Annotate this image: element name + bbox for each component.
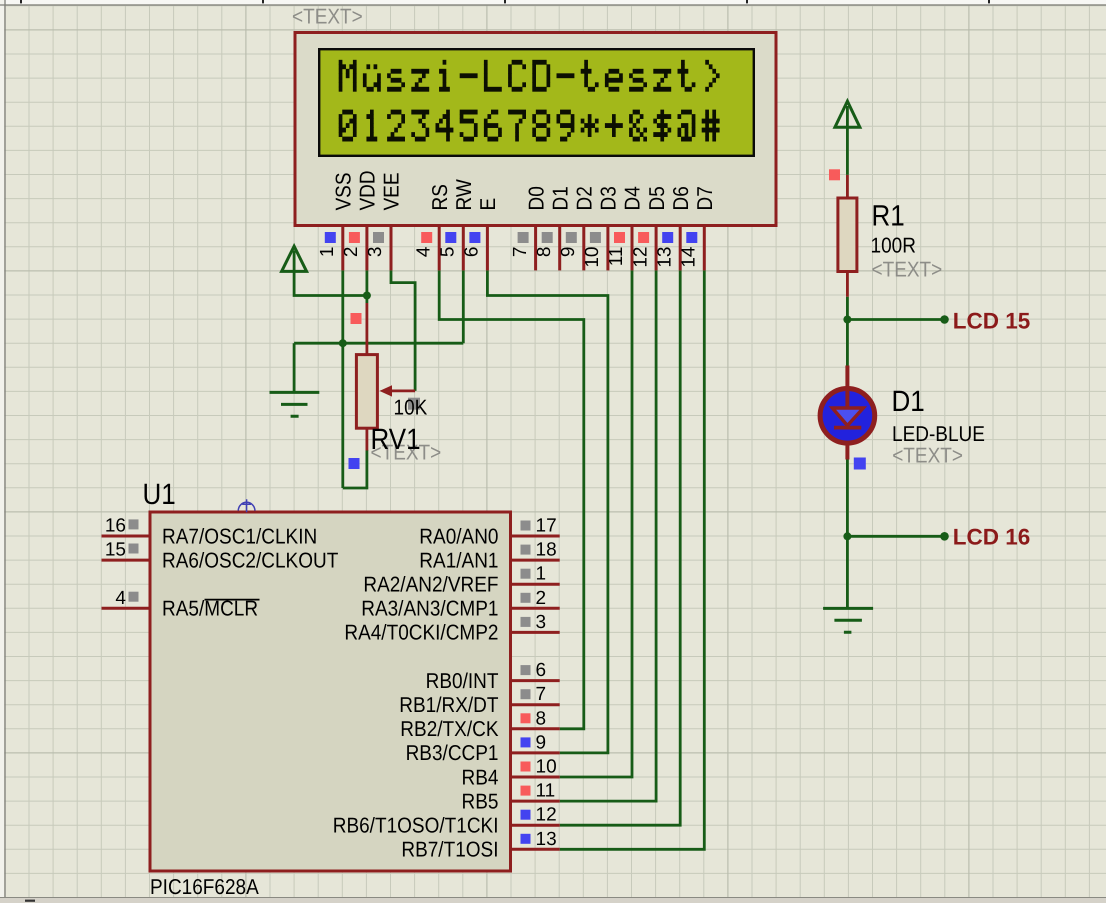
node LCD 16 terminal — [940, 532, 949, 541]
U1 right pin 18 (RA1/AN1) — [511, 540, 560, 561]
LCD pin 12 (D5) stub — [655, 227, 658, 271]
gray state square on VEE wire — [408, 398, 420, 410]
svg-text:LCD 16: LCD 16 — [953, 525, 1031, 550]
LCD pin 9 (D2) stub — [582, 227, 585, 271]
svg-text:10: 10 — [582, 247, 603, 268]
wire: D7 net LCD pin14 to PIC RB7 — [560, 270, 705, 849]
svg-text:RA4/T0CKI/CMP2: RA4/T0CKI/CMP2 — [344, 622, 498, 646]
LCD pin 9 state square — [566, 232, 577, 243]
wire: LCD16 junction down to ground — [846, 536, 849, 608]
wire: D5 net LCD pin12 to PIC RB5 — [560, 270, 656, 801]
LCD pin 4 state square — [421, 232, 432, 243]
svg-text:RB0/INT: RB0/INT — [426, 670, 499, 694]
potentiometer RV1 bottom pin stub — [365, 428, 368, 451]
svg-text:RB6/T1OSO/T1CKI: RB6/T1OSO/T1CKI — [333, 814, 499, 838]
blue state square on D1 bottom wire — [854, 458, 866, 470]
svg-text:RA6/OSC2/CLKOUT: RA6/OSC2/CLKOUT — [162, 549, 339, 573]
LCD pin 11 state square — [614, 232, 625, 243]
U1 right pin 8 (RB2/TX/CK) — [511, 708, 560, 729]
svg-text:<TEXT>: <TEXT> — [892, 444, 963, 468]
LCD pin 10 (D3) stub — [606, 227, 609, 271]
svg-text:12: 12 — [630, 247, 651, 268]
svg-text:18: 18 — [536, 540, 557, 561]
svg-text:VEE: VEE — [381, 172, 405, 210]
power symbol (left, +V arrow) — [282, 246, 307, 271]
LCD pin 11 (D4) stub — [631, 227, 634, 271]
wire: ground riser vertical — [293, 343, 296, 392]
LCD pin 3 state square — [373, 232, 384, 243]
LCD screen — [319, 49, 754, 156]
svg-text:7: 7 — [536, 684, 547, 705]
wire: RV1 bottom to ground rail loop — [343, 450, 367, 488]
U1 right pin 9 (RB3/CCP1) — [511, 732, 560, 753]
svg-text:8: 8 — [536, 708, 547, 729]
junction: D1/LCD16 node — [843, 532, 851, 540]
svg-text:13: 13 — [654, 247, 675, 268]
svg-text:16: 16 — [105, 516, 126, 537]
svg-text:RA3/AN3/CMP1: RA3/AN3/CMP1 — [361, 598, 498, 622]
svg-text:2: 2 — [536, 588, 547, 609]
svg-text:10: 10 — [536, 757, 557, 778]
svg-text:10K: 10K — [394, 396, 428, 420]
svg-text:8: 8 — [534, 247, 555, 258]
red state square on +V/R1 wire — [829, 169, 840, 180]
component origin marker — [238, 499, 255, 512]
LED D1 body circle — [820, 389, 875, 444]
potentiometer RV1 top pin stub — [365, 303, 368, 355]
LCD screen text line 2: 0123456789*+&$@# — [339, 110, 720, 142]
LCD pin 2 (VDD) stub — [365, 227, 368, 271]
LCD pin 2 state square — [349, 232, 360, 243]
resistor R1 body — [838, 198, 857, 272]
svg-text:D1: D1 — [549, 186, 573, 210]
microcontroller U1 body — [150, 512, 511, 871]
U1 pin name RA5/MCLR with overline — [162, 598, 260, 622]
bottom window strip — [0, 898, 1106, 903]
svg-text:RS: RS — [429, 184, 453, 210]
LCD pin 14 state square — [686, 232, 697, 243]
LCD display module (LM016L) body — [295, 33, 776, 226]
svg-text:LCD 15: LCD 15 — [953, 309, 1031, 334]
svg-text:<TEXT>: <TEXT> — [292, 5, 363, 29]
svg-text:6: 6 — [536, 660, 547, 681]
svg-text:U1: U1 — [143, 477, 176, 511]
svg-text:14: 14 — [679, 246, 700, 268]
wire: D1 bottom to LCD16 junction — [846, 460, 849, 537]
LCD pin 8 state square — [542, 232, 553, 243]
LCD pin 7 state square — [518, 232, 529, 243]
svg-text:RA2/AN2/VREF: RA2/AN2/VREF — [363, 573, 498, 597]
power symbol (right, +V arrow above R1) — [835, 101, 860, 127]
svg-text:RB3/CCP1: RB3/CCP1 — [406, 742, 499, 766]
wire: RS net LCD pin4 to PIC RB2 — [439, 270, 584, 728]
svg-text:RB7/T1OSI: RB7/T1OSI — [401, 839, 498, 863]
wire: LCD 15 branch — [847, 318, 944, 321]
svg-text:RA5/MCLR: RA5/MCLR — [162, 598, 258, 622]
wire: LCD pin3 VEE elbow to RV1 wiper — [391, 270, 415, 391]
junction: VDD/RV1 node — [363, 292, 371, 300]
LCD pin 8 (D1) stub — [558, 227, 561, 271]
junction: VSS/ground node — [339, 339, 347, 347]
svg-text:RW: RW — [453, 179, 477, 210]
svg-text:9: 9 — [558, 247, 579, 258]
svg-text:4: 4 — [413, 246, 434, 257]
LCD pin 13 (D6) stub — [679, 227, 682, 271]
wire: ground rail horizontal (gnd riser to LCD pin5) — [294, 342, 463, 345]
U1 right pin 3 (RA4/T0CKI/CMP2) — [511, 612, 560, 633]
LCD pin 6 state square — [469, 232, 480, 243]
resistor R1 top pin stub — [846, 175, 849, 199]
svg-text:11: 11 — [606, 247, 627, 267]
svg-text:LED-BLUE: LED-BLUE — [892, 423, 985, 447]
svg-text:1: 1 — [317, 247, 338, 258]
svg-text:D4: D4 — [622, 186, 646, 211]
potentiometer RV1 wiper arrow — [391, 389, 415, 392]
wire: LCD pin2 VDD down to junction — [365, 270, 368, 303]
svg-text:100R: 100R — [871, 234, 916, 258]
svg-text:9: 9 — [536, 732, 547, 753]
svg-text:3: 3 — [536, 612, 547, 633]
svg-text:12: 12 — [536, 805, 557, 826]
svg-text:RB1/RX/DT: RB1/RX/DT — [399, 694, 499, 718]
svg-text:RB4: RB4 — [462, 766, 499, 790]
U1 right pin 7 (RB1/RX/DT) — [511, 684, 560, 705]
wire: D4 net LCD pin11 to PIC RB4 — [560, 270, 632, 777]
wire: R1 bottom to LCD15 junction — [846, 297, 849, 320]
wire: power arrow to R1 top — [846, 106, 849, 175]
U1 right pin 17 (RA0/AN0) — [511, 516, 560, 537]
svg-text:13: 13 — [536, 829, 557, 850]
wire: LCD pin5 RW down to ground rail — [462, 270, 465, 343]
svg-text:RB2/TX/CK: RB2/TX/CK — [400, 718, 499, 742]
LCD pin 5 state square — [445, 232, 456, 243]
U1 right pin 1 (RA2/AN2/VREF) — [511, 564, 560, 585]
svg-text:D7: D7 — [694, 186, 718, 210]
junction: R1/D1/LCD15 node — [843, 316, 851, 324]
LCD pin 14 (D7) stub — [703, 227, 706, 271]
LCD pin 10 state square — [590, 232, 601, 243]
blue state square on RV1 bottom wire — [349, 458, 360, 469]
svg-text:17: 17 — [536, 516, 557, 537]
LED D1 top pin stub — [845, 366, 849, 391]
wire: LCD 16 branch — [847, 535, 944, 538]
svg-text:D5: D5 — [646, 186, 670, 210]
ground (right, below D1) — [823, 608, 873, 632]
svg-text:D0: D0 — [525, 186, 549, 210]
U1 right pin 10 (RB4) — [511, 757, 560, 778]
wire: LCD pin1 VSS vertical down to ground rail — [341, 270, 344, 488]
wire: junction down to D1 top — [846, 320, 849, 366]
LCD pin 3 (VEE) stub — [390, 227, 393, 271]
svg-text:11: 11 — [536, 781, 556, 802]
svg-text:3: 3 — [365, 247, 386, 258]
svg-text:RA0/AN0: RA0/AN0 — [419, 525, 498, 549]
LCD pin 12 state square — [638, 232, 649, 243]
U1 right pin 13 (RB7/T1OSI) — [511, 829, 560, 850]
svg-text:D6: D6 — [670, 186, 694, 210]
LCD pin 4 (RS) stub — [438, 227, 441, 271]
svg-text:D1: D1 — [892, 384, 925, 418]
LCD pin 1 (VSS) stub — [341, 227, 344, 271]
svg-text:2: 2 — [341, 247, 362, 258]
U1 right pin 12 (RB6/T1OSO/T1CKI) — [511, 805, 560, 826]
LED D1 diode symbol — [845, 388, 849, 428]
LCD screen text line 1: Muszi-LCD-teszt> — [339, 60, 720, 92]
resistor R1 bottom pin stub — [846, 272, 849, 297]
U1 right pin 11 (RB5) — [511, 781, 560, 802]
wire: power arrow to VDD junction — [294, 251, 367, 296]
svg-text:E: E — [477, 198, 501, 211]
svg-text:PIC16F628A: PIC16F628A — [150, 876, 259, 900]
svg-text:6: 6 — [462, 247, 483, 258]
red state square on VDD wire — [351, 313, 362, 324]
LCD pin 13 state square — [662, 232, 673, 243]
LCD pin 5 (RW) stub — [462, 227, 465, 271]
U1 left pin 16 (RA7/OSC1/CLKIN) — [102, 516, 151, 537]
svg-text:R1: R1 — [872, 198, 905, 232]
LCD pin 7 (D0) stub — [534, 227, 537, 271]
svg-text:15: 15 — [105, 540, 126, 561]
ground (left) — [270, 392, 320, 416]
svg-text:7: 7 — [510, 247, 531, 258]
svg-text:VSS: VSS — [332, 172, 356, 210]
U1 right pin 6 (RB0/INT) — [511, 660, 560, 681]
svg-text:D2: D2 — [573, 186, 597, 210]
LCD pin 6 (E) stub — [486, 227, 489, 271]
svg-text:4: 4 — [115, 588, 126, 609]
svg-text:1: 1 — [536, 564, 547, 585]
wire: E net LCD pin6 to PIC RB3 — [487, 270, 608, 753]
svg-text:RA7/OSC1/CLKIN: RA7/OSC1/CLKIN — [162, 525, 317, 549]
svg-text:RA1/AN1: RA1/AN1 — [419, 549, 498, 573]
LED D1 bottom pin stub — [845, 443, 849, 460]
potentiometer RV1 body — [356, 355, 377, 429]
svg-text:D3: D3 — [598, 186, 622, 210]
svg-text:RB5: RB5 — [462, 790, 499, 814]
U1 left pin 15 (RA6/OSC2/CLKOUT) — [102, 540, 151, 561]
svg-text:VDD: VDD — [357, 170, 381, 210]
wire: D6 net LCD pin13 to PIC RB6 — [560, 270, 681, 825]
svg-text:RV1: RV1 — [371, 422, 421, 456]
LCD pin 1 state square — [325, 232, 336, 243]
svg-text:5: 5 — [438, 247, 459, 258]
node LCD 15 terminal — [940, 315, 949, 324]
U1 left pin 4 (RA5/MCLR) — [102, 588, 151, 609]
U1 right pin 2 (RA3/AN3/CMP1) — [511, 588, 560, 609]
svg-text:<TEXT>: <TEXT> — [872, 258, 943, 282]
